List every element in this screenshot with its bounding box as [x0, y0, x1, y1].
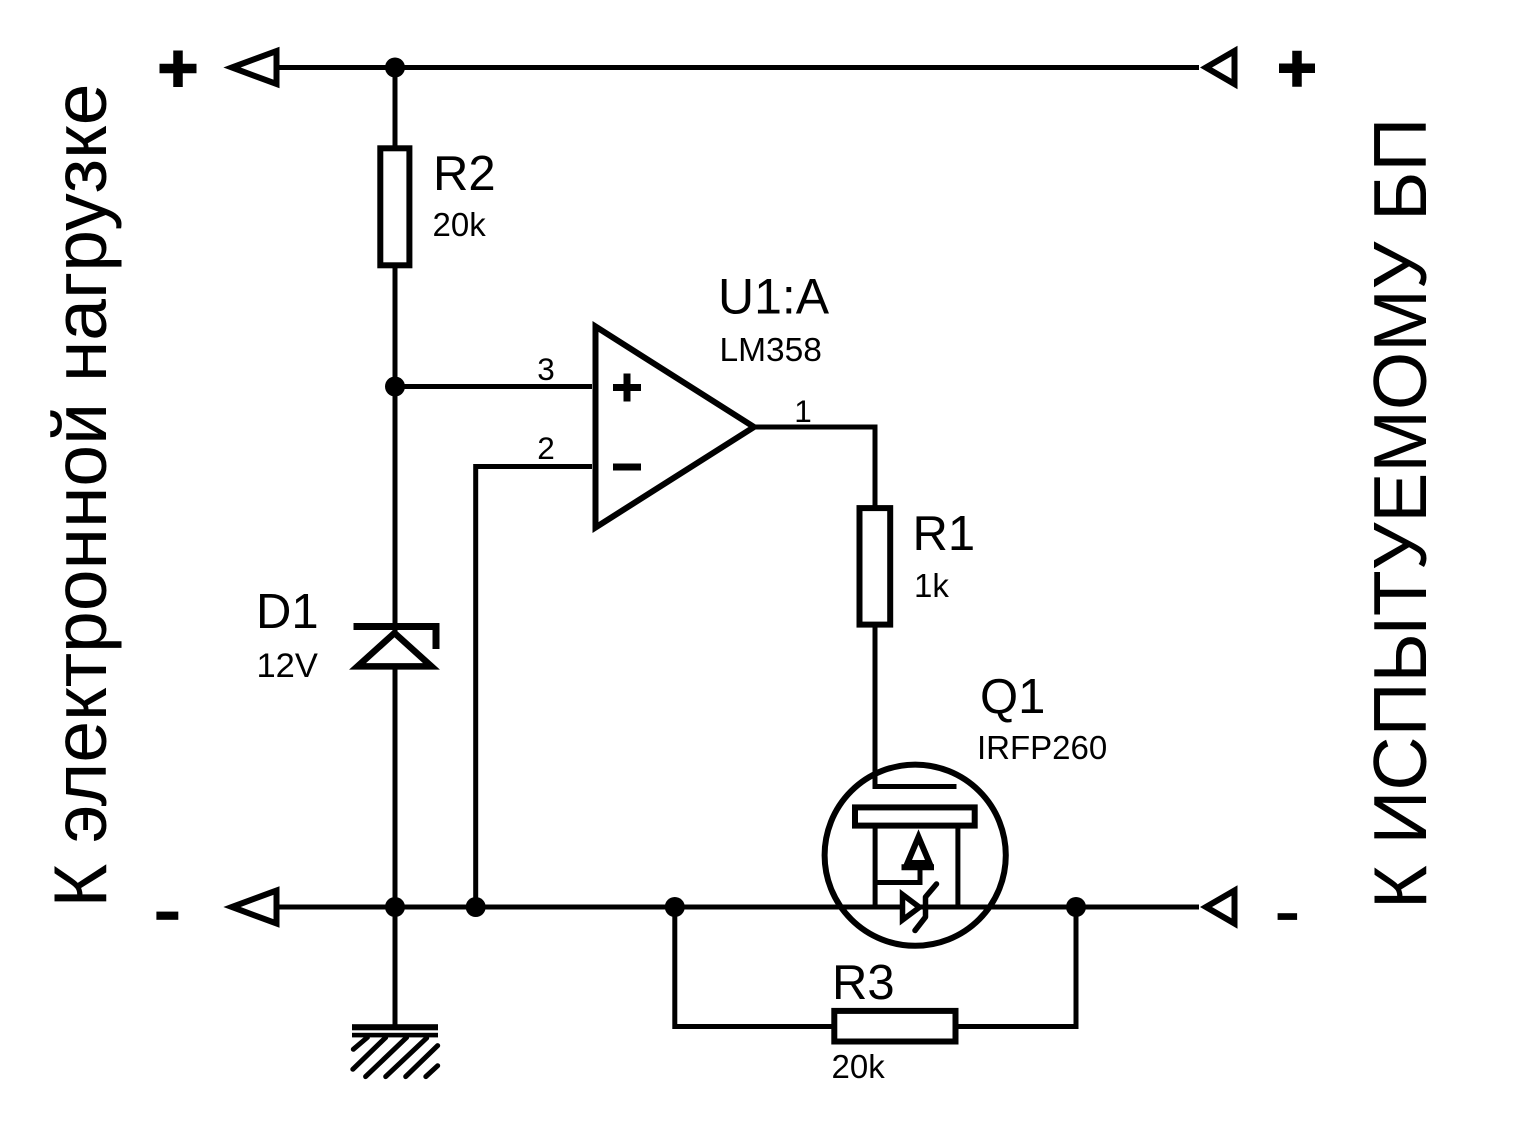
wire R3 left branch	[675, 907, 840, 1027]
svg-text:3: 3	[537, 351, 555, 387]
wire op-amp output pin 1	[754, 427, 875, 510]
wire R2 top	[393, 68, 398, 151]
minus mark bottom-right	[1278, 913, 1298, 920]
node bottom rail / pin2	[466, 897, 486, 917]
svg-text:К электронной нагрузке: К электронной нагрузке	[38, 84, 122, 908]
svg-text:20k: 20k	[832, 1048, 886, 1085]
svg-text:К ИСПЫТУЕМОМУ БП: К ИСПЫТУЕМОМУ БП	[1358, 118, 1442, 909]
svg-text:20k: 20k	[433, 206, 487, 243]
Q1 body diode	[903, 895, 920, 921]
Q1 drain stub	[955, 827, 960, 905]
node top rail / R2	[385, 58, 405, 78]
svg-text:IRFP260: IRFP260	[977, 729, 1107, 766]
svg-text:2: 2	[537, 430, 555, 466]
wire ground branch	[393, 907, 398, 1025]
resistor R2	[380, 148, 409, 265]
terminal arrow top-right	[1206, 51, 1235, 84]
plus mark top-right	[1279, 51, 1315, 87]
ground symbol	[352, 1024, 438, 1076]
op-amp plus input mark	[613, 374, 641, 402]
svg-text:LM358: LM358	[720, 332, 822, 369]
wire bottom rail (-)	[276, 905, 1199, 910]
wire top rail (+)	[276, 65, 1199, 70]
minus mark bottom-left	[156, 912, 178, 920]
wire R2 bottom to D1 to bottom rail	[393, 265, 398, 907]
transistor Q1 circle	[825, 765, 1006, 946]
svg-text:12V: 12V	[257, 647, 318, 685]
node R2 / pin3 / D1	[385, 377, 405, 397]
node bottom rail / R3 right	[1066, 897, 1086, 917]
Q1 substrate arrow	[908, 837, 930, 863]
svg-text:R3: R3	[832, 956, 895, 1010]
svg-text:Q1: Q1	[980, 670, 1045, 724]
svg-text:1k: 1k	[914, 567, 949, 604]
wire op-amp pin 3	[395, 384, 592, 389]
plus mark top-left	[160, 51, 197, 88]
Q1 channel plate	[855, 807, 975, 825]
zener diode D1 cathode bar	[354, 627, 437, 650]
terminal arrow bottom-right	[1206, 891, 1235, 924]
svg-text:U1:A: U1:A	[718, 269, 830, 325]
op-amp minus input mark	[613, 464, 641, 471]
zener diode D1 triangle	[358, 633, 432, 666]
Q1 source stub	[873, 827, 878, 905]
wire R1 bottom to Q1 gate	[875, 625, 957, 787]
node bottom rail / ground	[385, 897, 405, 917]
terminal arrow top-left	[232, 51, 277, 84]
svg-text:R2: R2	[433, 147, 496, 201]
resistor R3	[834, 1011, 955, 1042]
resistor R1	[860, 508, 891, 624]
svg-text:D1: D1	[256, 585, 319, 639]
terminal arrow bottom-left	[232, 891, 277, 924]
svg-text:R1: R1	[913, 507, 976, 561]
op-amp U1:A	[596, 327, 755, 528]
wire R3 right branch	[950, 907, 1076, 1027]
wire op-amp pin 2	[476, 467, 592, 906]
svg-text:1: 1	[794, 393, 812, 429]
node bottom rail / R3 left	[665, 897, 685, 917]
